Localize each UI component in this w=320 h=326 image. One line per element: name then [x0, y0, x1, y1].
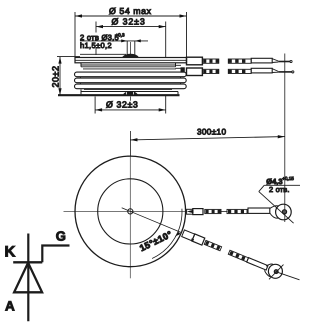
svg-text:20±2: 20±2	[51, 66, 61, 88]
svg-text:A: A	[5, 299, 15, 314]
extension line at lead ends (right)	[284, 54, 286, 223]
gate lead (plan, at 22.4°): crimp	[182, 230, 195, 241]
svg-text:h1,5±0,2: h1,5±0,2	[80, 41, 112, 50]
bottom plate	[58, 89, 180, 95]
dimension Ø32±3 bottom	[95, 96, 166, 114]
label A	[5, 299, 15, 314]
callout Ø4,3 2 holes	[259, 176, 300, 223]
thyristor symbol: cathode wire	[27, 234, 29, 322]
dimension 300±10	[130, 127, 284, 155]
h-level line at bump top	[80, 53, 126, 55]
cathode lead (plan): crimp	[187, 209, 193, 214]
ceramic rib 3	[75, 84, 187, 89]
cathode lead end ferrule and wire tip	[251, 58, 292, 63]
gate ring terminal	[264, 264, 299, 280]
dimension 20±2	[51, 57, 80, 96]
cathode lead braid segment 2	[228, 59, 251, 63]
gate lead: bare wire and crimp	[176, 65, 185, 72]
svg-text:Ø 32±3: Ø 32±3	[106, 99, 138, 109]
svg-text:2 отв.: 2 отв.	[269, 185, 290, 194]
bottom center bump (dark)	[123, 91, 138, 94]
cathode lead (plan): braid 2	[227, 209, 247, 213]
gate lead radius line	[122, 208, 182, 233]
middle flange	[81, 63, 176, 69]
cathode lead: bare + sleeve near disc	[187, 57, 203, 65]
gate lead braid segment 1	[202, 69, 218, 73]
thyristor symbol: cathode bar	[13, 261, 42, 263]
angular dimension text	[138, 229, 174, 253]
cathode lead braid segment 1	[202, 59, 218, 63]
ceramic rib 2	[75, 78, 187, 83]
dimension Ø54 max	[75, 6, 187, 57]
gate lead (plan): sleeve	[191, 234, 205, 246]
label K	[5, 244, 16, 261]
cathode lead (plan): braid 1	[205, 209, 221, 213]
cathode lead (plan): sleeve	[187, 209, 203, 215]
rib core connectors	[81, 77, 181, 84]
dimension Ø32±3 top	[96, 17, 166, 57]
callout 2 holes Ø3.5 with depth h1.5	[80, 33, 148, 57]
gate lead (plan): end ferrule	[247, 258, 268, 270]
thyristor symbol: gate wire	[42, 246, 69, 263]
gate lead end ferrule and wire tip	[251, 68, 294, 73]
svg-text:Ø 54 max: Ø 54 max	[109, 6, 152, 16]
svg-text:K: K	[5, 244, 16, 261]
disc pole inner circle (plan)	[98, 179, 163, 244]
svg-text:300±10: 300±10	[197, 127, 226, 136]
angular dimension arc 15°±10°	[152, 209, 193, 259]
plan view vertical centerline	[129, 156, 131, 279]
cathode lead (plan): end ferrule	[248, 208, 270, 213]
svg-text:+0,3: +0,3	[116, 33, 126, 38]
cathode lead (plan): break joint line	[221, 211, 228, 213]
gate lead (plan): braid 2	[228, 250, 248, 262]
svg-text:Ø 32±3: Ø 32±3	[112, 17, 146, 27]
ceramic rib 1	[75, 72, 187, 77]
plan view horizontal centerline	[64, 210, 200, 212]
label G	[56, 229, 66, 244]
svg-text:+0,15: +0,15	[282, 176, 294, 181]
top plate	[75, 58, 187, 63]
gate lead sleeve near disc	[187, 68, 203, 76]
top gate bump (dark)	[122, 54, 139, 58]
thyristor symbol: triangle	[14, 263, 42, 293]
center pin circle	[128, 209, 133, 214]
gate lead (plan): braid 1	[204, 240, 221, 251]
gate lead braid segment 2	[228, 69, 251, 73]
cathode ring terminal	[270, 204, 291, 220]
side view centerline	[130, 42, 132, 101]
disc outer circle (plan)	[75, 156, 186, 267]
svg-text:15°±10°: 15°±10°	[138, 229, 174, 253]
svg-text:G: G	[56, 229, 66, 244]
